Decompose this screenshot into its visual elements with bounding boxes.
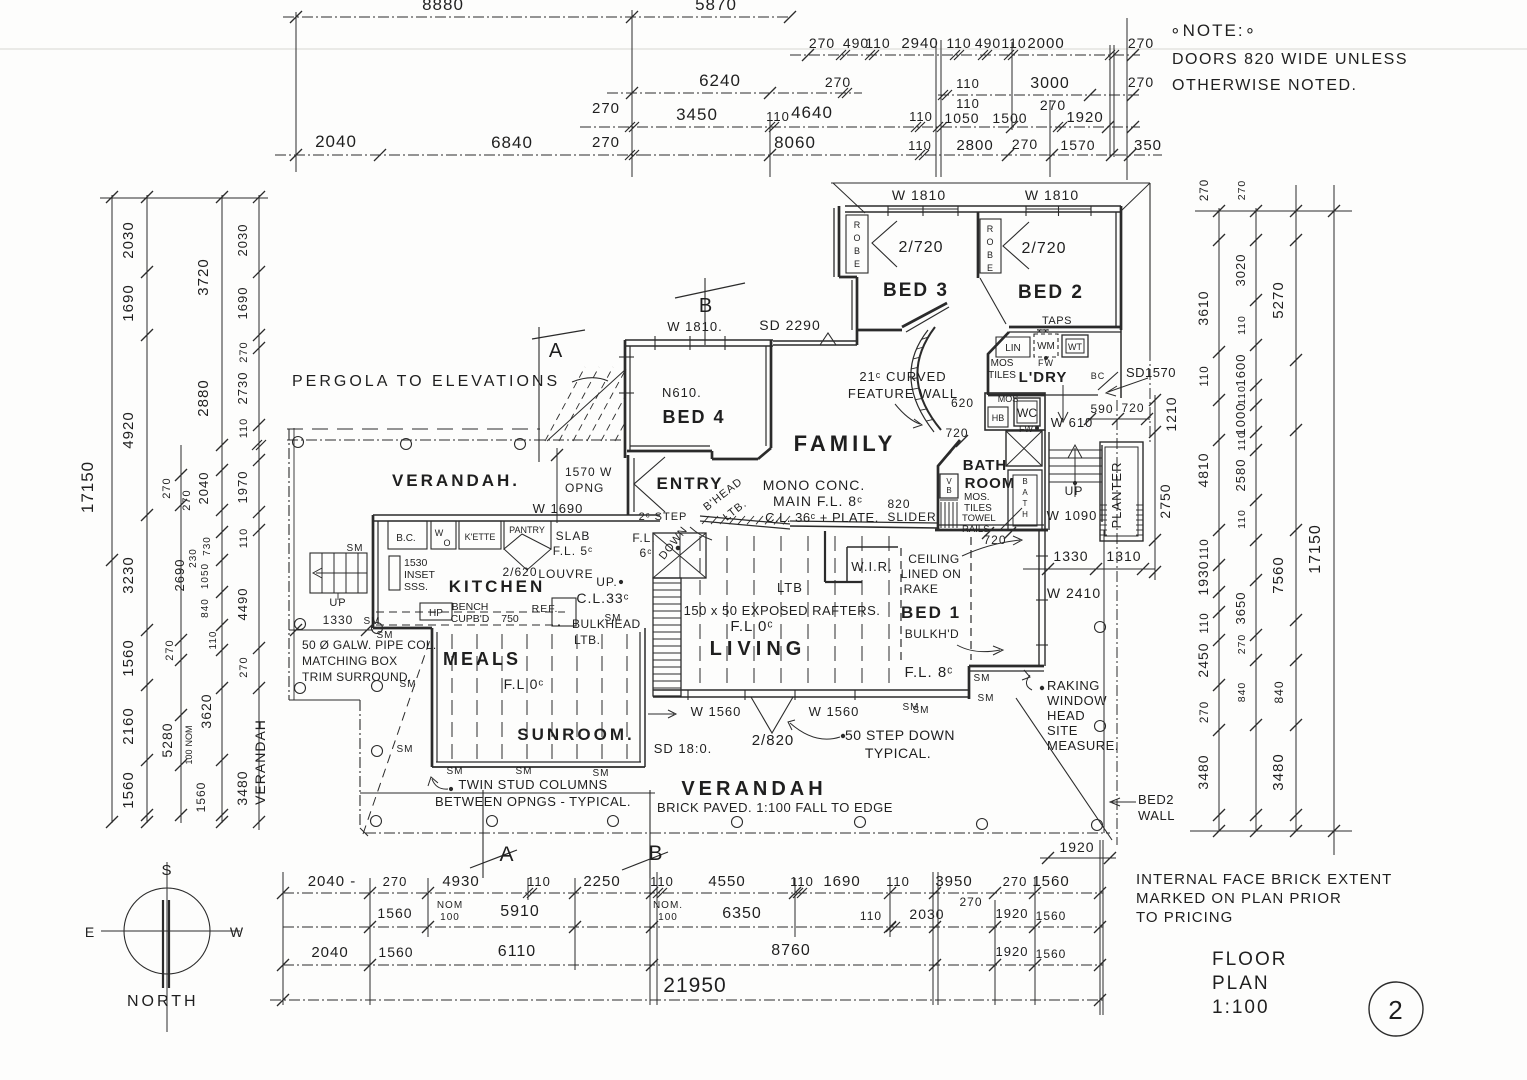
svg-text:6110: 6110 <box>498 943 536 960</box>
svg-text:LIVING: LIVING <box>710 638 807 660</box>
svg-text:BATH: BATH <box>963 457 1008 474</box>
svg-text:2250: 2250 <box>583 873 620 890</box>
svg-text:2030: 2030 <box>235 224 250 257</box>
svg-text:230: 230 <box>188 548 199 568</box>
svg-text:2/620: 2/620 <box>502 565 537 579</box>
svg-text:KITCHEN: KITCHEN <box>449 577 546 596</box>
svg-text:100: 100 <box>658 912 678 923</box>
svg-text:3450: 3450 <box>676 105 718 124</box>
svg-text:WALL: WALL <box>1138 808 1175 823</box>
svg-text:MEASURE.: MEASURE. <box>1047 738 1119 753</box>
svg-text:1560: 1560 <box>120 771 137 808</box>
svg-text:MEALS: MEALS <box>443 649 521 669</box>
svg-text:W 1560: W 1560 <box>809 704 860 719</box>
svg-text:FLOOR: FLOOR <box>1212 949 1287 970</box>
svg-text:1560: 1560 <box>194 782 208 813</box>
svg-text:6ᶜ: 6ᶜ <box>640 546 653 560</box>
svg-text:SM: SM <box>516 766 533 777</box>
svg-text:730: 730 <box>202 536 213 556</box>
svg-text:1600: 1600 <box>1233 354 1248 387</box>
svg-text:3610: 3610 <box>1195 290 1211 325</box>
svg-text:1560: 1560 <box>1032 873 1069 890</box>
svg-text:2/820: 2/820 <box>752 732 795 749</box>
svg-text:720: 720 <box>983 533 1006 547</box>
svg-text:HP: HP <box>429 608 443 619</box>
svg-text:SM: SM <box>377 630 394 641</box>
svg-text:110: 110 <box>1236 385 1248 405</box>
svg-text:W.I.R.: W.I.R. <box>851 559 892 574</box>
svg-text:7560: 7560 <box>1270 556 1287 593</box>
svg-text:270: 270 <box>592 134 620 151</box>
svg-text:1930: 1930 <box>1195 560 1211 595</box>
svg-text:SD 18:0.: SD 18:0. <box>654 741 713 756</box>
svg-text:BED 1: BED 1 <box>901 603 961 622</box>
svg-text:110: 110 <box>909 109 933 124</box>
svg-text:C.L. 36ᶜ + PLATE.: C.L. 36ᶜ + PLATE. <box>765 510 879 525</box>
svg-text:110: 110 <box>790 874 814 889</box>
svg-text:B: B <box>648 842 663 865</box>
svg-text:BRICK PAVED. 1:100 FALL TO EDG: BRICK PAVED. 1:100 FALL TO EDGE <box>657 800 893 815</box>
svg-text:2040: 2040 <box>311 944 348 961</box>
svg-text:110: 110 <box>1199 538 1211 559</box>
svg-text:50 Ø GALW. PIPE COL.: 50 Ø GALW. PIPE COL. <box>302 638 437 652</box>
svg-text:1330: 1330 <box>323 613 354 627</box>
svg-text:590: 590 <box>1090 402 1113 416</box>
svg-text:W: W <box>435 528 444 538</box>
svg-text:110: 110 <box>956 96 980 111</box>
svg-text:A: A <box>1022 488 1028 497</box>
svg-text:5280: 5280 <box>159 722 175 757</box>
svg-text:3950: 3950 <box>935 873 972 890</box>
svg-text:L'DRY: L'DRY <box>1019 369 1068 386</box>
svg-text:TRIM SURROUND.: TRIM SURROUND. <box>302 670 412 684</box>
svg-text:TILES: TILES <box>988 370 1016 381</box>
svg-text:3480: 3480 <box>1270 753 1287 790</box>
svg-text:V: V <box>946 477 952 486</box>
svg-text:B: B <box>946 486 951 495</box>
svg-text:1000: 1000 <box>1233 403 1248 436</box>
svg-text:BULKH'D: BULKH'D <box>905 627 959 641</box>
svg-text:270: 270 <box>1236 634 1248 655</box>
svg-text:W 1810: W 1810 <box>1025 187 1079 203</box>
svg-text:270: 270 <box>1040 97 1066 113</box>
svg-text:SM: SM <box>347 543 364 554</box>
svg-text:O: O <box>443 538 450 548</box>
svg-text:REF.: REF. <box>532 603 559 615</box>
svg-text:21950: 21950 <box>663 974 726 997</box>
svg-text:BED 3: BED 3 <box>883 280 949 301</box>
svg-text:1690: 1690 <box>120 284 137 321</box>
svg-text:3480: 3480 <box>234 770 250 805</box>
svg-text:1690: 1690 <box>823 873 860 890</box>
svg-text:F.L 0ᶜ: F.L 0ᶜ <box>504 676 545 692</box>
svg-text:W 1690: W 1690 <box>533 501 584 516</box>
svg-text:MARKED ON PLAN PRIOR: MARKED ON PLAN PRIOR <box>1136 890 1342 907</box>
svg-text:1560: 1560 <box>378 944 413 960</box>
svg-text:E: E <box>854 259 860 269</box>
svg-text:WM: WM <box>1037 341 1055 352</box>
svg-text:RAKE: RAKE <box>904 582 939 596</box>
svg-text:1570 W: 1570 W <box>565 465 612 479</box>
svg-text:270: 270 <box>161 477 173 498</box>
svg-text:BED 2: BED 2 <box>1018 282 1084 303</box>
svg-text:1560: 1560 <box>377 905 412 921</box>
svg-text:HB: HB <box>992 413 1005 423</box>
svg-text:270: 270 <box>238 341 250 362</box>
svg-text:2730: 2730 <box>235 372 250 405</box>
svg-text:150 x 50 EXPOSED RAFTERS.: 150 x 50 EXPOSED RAFTERS. <box>684 603 881 618</box>
svg-text:W 2410: W 2410 <box>1047 585 1101 601</box>
svg-text:620: 620 <box>951 396 974 410</box>
svg-text:DOORS 820 WIDE UNLESS: DOORS 820 WIDE UNLESS <box>1172 51 1408 68</box>
svg-text:2/720: 2/720 <box>1021 240 1066 257</box>
svg-text:SM: SM <box>974 673 991 684</box>
svg-text:SSS.: SSS. <box>404 581 428 593</box>
svg-text:NOM: NOM <box>437 900 463 911</box>
svg-text:840: 840 <box>1272 680 1286 703</box>
svg-text:SD 2290: SD 2290 <box>759 317 820 333</box>
svg-text:WC: WC <box>1017 406 1037 420</box>
svg-text:2: 2 <box>1388 995 1403 1025</box>
svg-text:BC: BC <box>1091 371 1106 381</box>
svg-text:1560: 1560 <box>120 639 137 676</box>
svg-text:K'ETTE: K'ETTE <box>465 532 496 542</box>
svg-text:1920: 1920 <box>1059 839 1094 855</box>
svg-text:W 1810.: W 1810. <box>667 319 722 334</box>
svg-text:SD1570: SD1570 <box>1126 365 1176 380</box>
svg-text:270: 270 <box>592 100 620 117</box>
svg-text:3720: 3720 <box>195 258 212 295</box>
svg-text:SM: SM <box>903 702 920 713</box>
svg-text:4640: 4640 <box>791 103 833 122</box>
svg-text:O: O <box>853 233 860 243</box>
svg-text:270: 270 <box>1199 701 1211 723</box>
svg-text:PANTRY: PANTRY <box>509 525 545 535</box>
svg-text:1560: 1560 <box>1036 947 1067 961</box>
svg-text:2040: 2040 <box>196 472 211 505</box>
svg-text:3620: 3620 <box>198 693 214 728</box>
svg-text:720: 720 <box>1121 401 1144 415</box>
svg-text:MOS: MOS <box>998 394 1019 404</box>
svg-text:5270: 5270 <box>1270 281 1287 318</box>
svg-text:3480: 3480 <box>1195 754 1211 789</box>
svg-text:F.L. 5ᶜ: F.L. 5ᶜ <box>553 544 594 558</box>
svg-text:OTHERWISE NOTED.: OTHERWISE NOTED. <box>1172 77 1358 94</box>
svg-text:RAKING: RAKING <box>1047 678 1100 693</box>
svg-text:2690: 2690 <box>172 559 187 592</box>
svg-text:PERGOLA TO ELEVATIONS: PERGOLA TO ELEVATIONS <box>292 373 560 390</box>
svg-text:INTERNAL FACE BRICK EXTENT: INTERNAL FACE BRICK EXTENT <box>1136 871 1392 888</box>
svg-text:F.L.: F.L. <box>632 531 655 545</box>
svg-text:110: 110 <box>238 528 250 549</box>
svg-text:HEAD: HEAD <box>1047 708 1085 723</box>
svg-text:110: 110 <box>1199 365 1211 386</box>
svg-text:MONO CONC.: MONO CONC. <box>763 477 866 493</box>
svg-text:110: 110 <box>1236 431 1248 451</box>
svg-text:TYPICAL.: TYPICAL. <box>865 745 931 761</box>
svg-text:F.L. 8ᶜ: F.L. 8ᶜ <box>905 664 954 681</box>
svg-text:B: B <box>854 246 860 256</box>
svg-text:VERANDAH.: VERANDAH. <box>392 471 520 490</box>
svg-text:UP.: UP. <box>596 575 617 589</box>
svg-text:W 1090: W 1090 <box>1047 508 1098 523</box>
svg-text:110: 110 <box>527 874 551 889</box>
svg-text:270: 270 <box>1128 74 1154 90</box>
svg-text:BENCH: BENCH <box>452 601 489 613</box>
svg-text:FAMILY: FAMILY <box>794 431 897 456</box>
svg-text:270: 270 <box>1012 136 1038 152</box>
svg-text:H: H <box>1022 510 1028 519</box>
svg-text:100: 100 <box>440 912 460 923</box>
svg-text:2160: 2160 <box>120 707 137 744</box>
svg-text:BETWEEN OPNGS - TYPICAL.: BETWEEN OPNGS - TYPICAL. <box>435 794 631 809</box>
svg-text:VERANDAH: VERANDAH <box>681 778 826 800</box>
svg-text:R: R <box>987 224 994 234</box>
svg-text:110: 110 <box>908 138 932 153</box>
svg-text:5910: 5910 <box>500 903 540 920</box>
svg-text:2450: 2450 <box>1195 642 1211 677</box>
svg-text:SM: SM <box>397 744 414 755</box>
svg-text:2040: 2040 <box>315 132 357 151</box>
svg-text:110: 110 <box>860 909 882 923</box>
svg-text:W 1560: W 1560 <box>691 704 742 719</box>
svg-text:FW: FW <box>1019 424 1033 434</box>
svg-text:OPNG: OPNG <box>565 481 604 495</box>
svg-text:4810: 4810 <box>1195 452 1211 487</box>
svg-text:SLIDER: SLIDER <box>887 510 936 524</box>
svg-text:LOUVRE: LOUVRE <box>538 567 593 581</box>
svg-text:17150: 17150 <box>1307 524 1324 574</box>
svg-text:CEILING: CEILING <box>908 552 960 566</box>
svg-text:110: 110 <box>1236 315 1248 335</box>
svg-text:2940: 2940 <box>901 35 938 52</box>
svg-text:1330: 1330 <box>1053 548 1088 564</box>
svg-text:1310: 1310 <box>1106 548 1141 564</box>
svg-text:110: 110 <box>865 35 890 51</box>
svg-text:110: 110 <box>886 874 910 889</box>
svg-text:CUPB'D: CUPB'D <box>451 613 490 625</box>
svg-text:UP: UP <box>1065 484 1084 498</box>
svg-text:NORTH: NORTH <box>127 993 199 1010</box>
svg-text:PLANTER: PLANTER <box>1109 462 1124 529</box>
svg-text:TWIN STUD COLUMNS: TWIN STUD COLUMNS <box>458 777 607 792</box>
svg-text:T: T <box>1023 499 1028 508</box>
svg-text:B.C.: B.C. <box>396 533 415 544</box>
svg-text:1210: 1210 <box>1163 396 1179 431</box>
svg-text:1560: 1560 <box>1036 909 1067 923</box>
svg-text:1500: 1500 <box>992 110 1027 126</box>
svg-text:PLAN: PLAN <box>1212 973 1270 994</box>
svg-text:4550: 4550 <box>708 873 745 890</box>
svg-text:1530: 1530 <box>404 557 428 569</box>
svg-text:750: 750 <box>501 613 519 625</box>
svg-text:110: 110 <box>650 874 674 889</box>
svg-text:A: A <box>499 843 514 866</box>
svg-text:270: 270 <box>1199 179 1211 201</box>
svg-text:270: 270 <box>959 895 982 909</box>
svg-text:SM: SM <box>605 613 622 624</box>
svg-text:1970: 1970 <box>235 471 250 504</box>
svg-text:SM: SM <box>447 766 464 777</box>
svg-text:F.L 0ᶜ: F.L 0ᶜ <box>730 618 773 635</box>
svg-text:110: 110 <box>956 76 980 91</box>
svg-text:TO PRICING: TO PRICING <box>1136 909 1233 926</box>
svg-text:270: 270 <box>1128 35 1154 51</box>
svg-text:8060: 8060 <box>774 133 816 152</box>
svg-text:SLAB: SLAB <box>556 529 591 543</box>
svg-text:270: 270 <box>164 639 176 660</box>
svg-text:100: 100 <box>184 749 194 764</box>
svg-text:2750: 2750 <box>1157 483 1173 518</box>
svg-text:21ᶜ CURVED: 21ᶜ CURVED <box>859 369 946 384</box>
svg-text:E: E <box>85 924 95 940</box>
svg-text:3020: 3020 <box>1233 254 1248 287</box>
svg-text:WINDOW: WINDOW <box>1047 693 1107 708</box>
svg-text:1050: 1050 <box>944 110 979 126</box>
svg-text:B: B <box>987 250 993 260</box>
svg-text:LINED ON: LINED ON <box>901 567 962 581</box>
svg-text:1570: 1570 <box>1060 137 1095 153</box>
svg-text:B: B <box>1022 477 1027 486</box>
svg-text:1050: 1050 <box>200 563 211 589</box>
svg-text:6840: 6840 <box>491 133 533 152</box>
svg-text:E: E <box>987 263 993 273</box>
svg-text:1920: 1920 <box>996 944 1029 959</box>
svg-text:LTB: LTB <box>777 580 803 595</box>
svg-text:INSET: INSET <box>404 569 436 581</box>
svg-text:1920: 1920 <box>1066 109 1103 126</box>
svg-text:2030: 2030 <box>120 221 137 258</box>
svg-text:WT: WT <box>1068 342 1082 352</box>
svg-text:8880: 8880 <box>422 0 464 14</box>
svg-text:R: R <box>854 220 861 230</box>
svg-text:FEATURE WALL: FEATURE WALL <box>848 386 958 401</box>
svg-text:S: S <box>161 862 172 879</box>
svg-text:270: 270 <box>825 74 851 90</box>
svg-text:BED 4: BED 4 <box>662 407 725 427</box>
svg-text:5870: 5870 <box>695 0 737 14</box>
svg-text:270: 270 <box>383 874 408 889</box>
svg-text:ENTRY: ENTRY <box>657 474 724 493</box>
svg-text:A: A <box>549 340 563 362</box>
svg-text:2040 -: 2040 - <box>308 873 357 890</box>
svg-text:C.L.33ᶜ: C.L.33ᶜ <box>576 590 629 606</box>
svg-text:270: 270 <box>238 656 250 677</box>
svg-text:SUNROOM.: SUNROOM. <box>517 725 635 744</box>
svg-text:2/720: 2/720 <box>898 239 943 256</box>
svg-text:4920: 4920 <box>120 411 137 448</box>
svg-text:2000: 2000 <box>1027 35 1064 52</box>
svg-text:8760: 8760 <box>771 942 811 959</box>
svg-text:SM: SM <box>978 693 995 704</box>
svg-text:490: 490 <box>975 35 1001 51</box>
svg-text:840: 840 <box>200 598 211 618</box>
svg-text:MOS: MOS <box>991 358 1014 369</box>
svg-text:110: 110 <box>946 35 971 51</box>
svg-text:SITE: SITE <box>1047 723 1078 738</box>
svg-text:50 STEP DOWN: 50 STEP DOWN <box>845 727 955 743</box>
svg-text:MOS.: MOS. <box>964 492 990 503</box>
svg-text:110: 110 <box>238 418 250 439</box>
svg-text:LTB.: LTB. <box>574 633 600 647</box>
svg-text:MATCHING BOX: MATCHING BOX <box>302 654 397 668</box>
svg-text:TOWEL: TOWEL <box>962 513 996 524</box>
svg-text:VERANDAH: VERANDAH <box>252 719 268 805</box>
svg-text:350: 350 <box>1134 137 1162 154</box>
svg-text:270: 270 <box>1236 180 1248 201</box>
svg-text:W: W <box>230 924 244 940</box>
svg-text:840: 840 <box>1236 682 1248 703</box>
svg-text:270: 270 <box>809 35 835 51</box>
svg-text:270: 270 <box>181 489 193 510</box>
svg-text:4930: 4930 <box>442 873 479 890</box>
svg-text:B: B <box>699 295 713 317</box>
svg-text:NOM.: NOM. <box>653 900 683 911</box>
svg-text:17150: 17150 <box>78 461 97 513</box>
svg-text:110: 110 <box>1236 509 1248 529</box>
svg-text:O: O <box>986 237 993 247</box>
svg-text:MAIN F.L. 8ᶜ: MAIN F.L. 8ᶜ <box>773 493 863 509</box>
svg-text:110: 110 <box>208 631 219 650</box>
svg-text:N610.: N610. <box>662 385 702 400</box>
svg-text:2580: 2580 <box>1233 459 1248 492</box>
svg-text:3230: 3230 <box>120 556 137 593</box>
svg-text:2800: 2800 <box>956 137 993 154</box>
svg-text:LIN: LIN <box>1005 343 1021 354</box>
svg-text:110: 110 <box>1199 612 1211 633</box>
svg-text:1:100: 1:100 <box>1212 997 1270 1018</box>
svg-text:820: 820 <box>887 497 910 511</box>
svg-text:W 1810: W 1810 <box>892 187 946 203</box>
svg-text:110: 110 <box>1001 35 1026 51</box>
svg-text:1690: 1690 <box>235 287 250 320</box>
svg-text:6350: 6350 <box>722 905 762 922</box>
svg-text:3650: 3650 <box>1233 592 1248 625</box>
svg-text:∘NOTE:∘: ∘NOTE:∘ <box>1170 21 1257 40</box>
svg-text:2880: 2880 <box>195 379 212 416</box>
svg-text:4490: 4490 <box>235 588 250 621</box>
svg-text:1920: 1920 <box>996 906 1029 921</box>
svg-text:6240: 6240 <box>699 71 741 90</box>
svg-text:3000: 3000 <box>1030 75 1070 92</box>
svg-text:270: 270 <box>1003 874 1028 889</box>
svg-text:SM: SM <box>400 679 417 690</box>
svg-text:NOM: NOM <box>184 726 194 747</box>
svg-text:BED2: BED2 <box>1138 792 1174 807</box>
svg-text:2030: 2030 <box>909 906 944 922</box>
